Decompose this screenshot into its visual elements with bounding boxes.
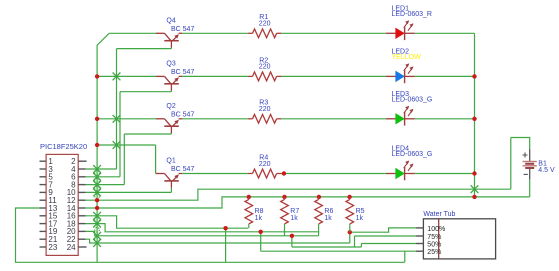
svg-text:R6: R6: [324, 208, 333, 215]
svg-text:LED-0603_G: LED-0603_G: [392, 96, 433, 103]
svg-text:50%: 50%: [427, 241, 441, 248]
svg-text:R8: R8: [255, 208, 264, 215]
svg-text:1k: 1k: [290, 215, 298, 222]
svg-text:220: 220: [259, 106, 271, 113]
svg-text:1k: 1k: [324, 215, 332, 222]
svg-text:Q2: Q2: [166, 103, 175, 110]
svg-text:1k: 1k: [255, 215, 263, 222]
svg-text:BC 547: BC 547: [171, 166, 194, 173]
svg-text:Water Tub: Water Tub: [423, 211, 455, 218]
svg-text:220: 220: [259, 161, 271, 168]
svg-text:220: 220: [259, 21, 271, 28]
svg-text:PIC18F25K20: PIC18F25K20: [40, 142, 87, 151]
svg-text:24: 24: [67, 243, 76, 252]
svg-text:Q4: Q4: [166, 18, 175, 25]
svg-text:R5: R5: [356, 208, 365, 215]
svg-text:Q1: Q1: [166, 158, 175, 165]
svg-text:BC 547: BC 547: [171, 112, 194, 119]
svg-text:Q3: Q3: [166, 61, 175, 68]
svg-text:R7: R7: [290, 208, 299, 215]
svg-text:100%: 100%: [427, 226, 445, 233]
svg-text:75%: 75%: [427, 234, 441, 241]
svg-text:220: 220: [259, 64, 271, 71]
svg-text:BC 547: BC 547: [171, 69, 194, 76]
svg-text:23: 23: [48, 243, 57, 252]
svg-text:25%: 25%: [427, 249, 441, 256]
svg-text:BC 547: BC 547: [171, 26, 194, 33]
svg-text:4.5 V: 4.5 V: [538, 167, 555, 174]
svg-text:LED-0603_R: LED-0603_R: [392, 11, 432, 18]
svg-text:1k: 1k: [356, 215, 364, 222]
svg-text:YELLOW: YELLOW: [392, 54, 422, 61]
svg-text:LED-0603_G: LED-0603_G: [392, 151, 433, 158]
